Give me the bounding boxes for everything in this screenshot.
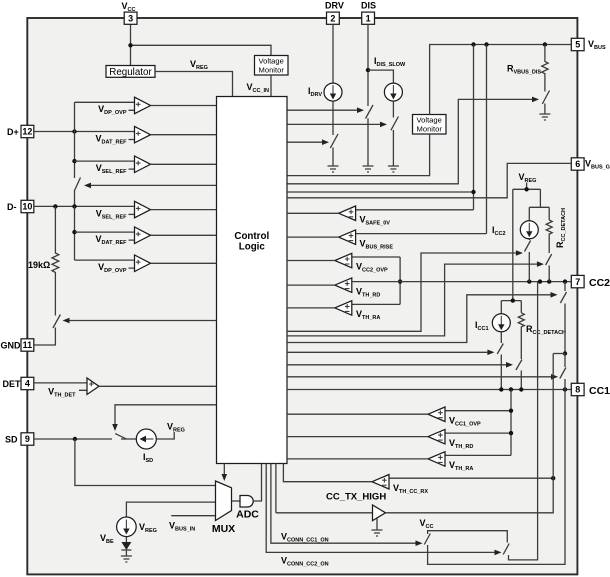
wire control to RCC1 switch — [287, 364, 506, 366]
comparator VBUS_RISE — [287, 230, 487, 245]
ground for IDIS_SLOW — [388, 166, 399, 172]
wire control tap on riser A — [287, 190, 476, 194]
svg-text:D+: D+ — [7, 127, 19, 137]
svg-text:MUX: MUX — [212, 523, 235, 535]
svg-text:Voltage: Voltage — [417, 116, 442, 125]
wire D- net — [34, 204, 134, 208]
switch CC TX to CC1 — [560, 368, 566, 379]
switch VCONN CC2 — [503, 544, 509, 555]
svg-text:ADC: ADC — [236, 509, 259, 521]
svg-text:DRV: DRV — [325, 1, 344, 11]
comparator VDAT_REF (D+) — [129, 126, 217, 142]
switch VCONN CC1 — [424, 534, 430, 545]
comparator VSAFE_0V — [287, 206, 474, 221]
wire VBE branch to MUX input — [126, 502, 215, 517]
svg-text:2: 2 — [330, 13, 335, 23]
comparator VTH_RD (CC1) — [287, 429, 511, 444]
pin 8 (CC1) — [571, 383, 584, 395]
wire control to D+/D- switch — [91, 184, 217, 186]
svg-text:Monitor: Monitor — [259, 65, 285, 74]
comparator VTH_DET — [34, 378, 217, 395]
switch ICC1 connect — [497, 344, 503, 355]
svg-text:1: 1 — [366, 13, 371, 23]
comparator VSEL_REF (D-) — [129, 201, 217, 218]
wire VREG node CC2 — [513, 183, 549, 221]
svg-text:CC_TX_HIGH: CC_TX_HIGH — [326, 491, 386, 502]
svg-text:4: 4 — [25, 379, 30, 389]
wire D- tap column — [72, 206, 76, 260]
switch GND path — [53, 315, 61, 329]
pin 1 (DIS) — [362, 12, 375, 24]
wire VREG riser to CC1 cell — [512, 189, 514, 300]
comparator VTH_CC_RX — [283, 464, 555, 490]
wire CC2 comparator tap column — [398, 257, 402, 304]
pin 5 (VBUS) — [571, 38, 584, 50]
control logic block — [217, 97, 288, 464]
regulator U-REG — [106, 66, 155, 78]
pin 9 (SD) — [21, 433, 34, 445]
svg-text:6: 6 — [575, 159, 580, 169]
wire CC1 cell top bar — [501, 298, 521, 313]
comparator VCC2_OVP — [287, 253, 400, 267]
ground for DIS switch — [363, 166, 374, 172]
wire CC1 comparator tap column — [509, 390, 513, 456]
wire VCONN_CC2_ON control — [266, 464, 494, 553]
comparator VCC1_OVP — [287, 407, 511, 422]
wire IDRV to switch and ground — [332, 101, 334, 166]
wire ICC2 to switch to CC2 — [528, 239, 530, 282]
wire CC1 net to pin 8 — [287, 387, 571, 391]
svg-text:3: 3 — [128, 13, 133, 23]
pin 2 (DRV) — [327, 12, 340, 24]
wire VCC bar for VCONN switches — [428, 531, 508, 543]
wire VCC_IN from VM1 to control logic — [270, 75, 272, 97]
wire 19k to GND switch — [34, 276, 56, 345]
wire DIS to IDIS_SLOW branch — [368, 70, 393, 83]
svg-text:CC1: CC1 — [589, 385, 610, 397]
wire ADC output to control logic — [253, 464, 261, 502]
wire RCC_DETACH CC2 to switch to CC2 — [548, 236, 550, 282]
svg-text:DET: DET — [3, 379, 22, 389]
svg-text:DIS: DIS — [361, 1, 376, 11]
svg-text:Monitor: Monitor — [417, 124, 443, 133]
wire control to VBUS discharge switch — [287, 99, 532, 183]
wire VM2 output to control logic — [287, 134, 430, 176]
svg-text:Logic: Logic — [239, 242, 266, 253]
svg-text:CC2: CC2 — [589, 277, 610, 289]
wire VCC net from pin 3 to regulator and voltage monitor — [128, 24, 271, 65]
svg-text:SD: SD — [5, 435, 18, 445]
pin 7 (CC2) — [571, 275, 584, 287]
wire control to TX-CC1 switch — [287, 376, 551, 378]
switch DIS discharge — [366, 105, 374, 119]
resistor RVBUS_DIS — [542, 45, 548, 77]
resistor 19k on D- — [52, 206, 59, 276]
buffer CC TX driver — [276, 464, 386, 531]
wire RVBUS_DIS to switch — [544, 76, 546, 114]
ground for VBE — [121, 556, 132, 562]
wire SD to MUX input — [75, 439, 216, 486]
pin 12 (D+) — [21, 125, 34, 137]
wire VBUS sense riser A — [473, 45, 475, 210]
svg-text:12: 12 — [22, 127, 32, 137]
wire control to GND switch — [70, 320, 217, 322]
current source ICC2 — [520, 221, 538, 239]
switch IDIS_SLOW enable — [391, 117, 399, 131]
wire DRV pin to current source IDRV — [332, 24, 334, 83]
svg-text:19kΩ: 19kΩ — [28, 260, 50, 270]
comparator VDP_OVP (D-) — [75, 255, 217, 272]
svg-text:10: 10 — [22, 202, 32, 212]
wire control to DIS switch — [287, 109, 357, 111]
node CC TX join — [553, 351, 567, 355]
svg-text:11: 11 — [23, 340, 33, 350]
comparator VDP_OVP (D+) — [75, 97, 217, 114]
switch ISD enable — [115, 434, 126, 439]
wire control to IDIS_SLOW switch — [287, 123, 380, 125]
ground for IDRV — [328, 166, 339, 172]
wire control to IDRV switch — [287, 141, 322, 143]
wire control to TX-CC2 switch — [287, 295, 551, 343]
voltage monitor U-VM1 — [255, 56, 289, 76]
current source ISD — [121, 429, 174, 449]
svg-text:5: 5 — [575, 40, 580, 50]
wire VBUS sense riser B — [486, 45, 488, 234]
wire control to ICC1 switch — [287, 351, 487, 353]
wire control to pin 6 — [287, 163, 571, 197]
current source IDIS_SLOW — [384, 83, 402, 101]
wire CC TX mux chain upper — [564, 282, 566, 354]
svg-text:Control: Control — [234, 231, 269, 242]
svg-text:Regulator: Regulator — [109, 67, 152, 78]
wire CC TX output riser — [386, 354, 554, 513]
switch VBUS discharge — [542, 91, 549, 105]
comparator VDAT_REF (D-) — [75, 227, 217, 244]
wire control to MUX select — [223, 464, 225, 475]
pin 10 (D-) — [21, 200, 34, 212]
current source ICC1 — [492, 314, 510, 332]
switch IDRV enable — [330, 134, 338, 148]
wire VREG from regulator to control logic — [155, 72, 233, 97]
wire D+ tap column — [72, 102, 76, 206]
wire VCONN_CC1_ON control — [271, 464, 416, 544]
comparator VTH_RA (CC2) — [287, 301, 400, 316]
wire VCONN CC1 switch to CC1 riser — [428, 390, 565, 565]
svg-text:GND: GND — [1, 341, 22, 351]
svg-text:8: 8 — [575, 385, 580, 395]
current source VBE bias — [117, 517, 137, 537]
wire VBUS rail to pin 5 — [430, 42, 572, 114]
switch RCC_DETACH CC2 connect — [546, 254, 552, 265]
pin 11 (GND) — [21, 339, 34, 351]
switch CC TX to CC2 — [560, 292, 566, 303]
switch ICC2 connect — [525, 241, 531, 252]
comparator VSEL_REF (D+) — [75, 156, 217, 173]
ground for VBUS discharge — [539, 114, 550, 120]
wire IDIS_SLOW to switch and ground — [392, 101, 394, 166]
resistor RCC_DETACH (CC1) — [518, 313, 524, 329]
diode VBE junction — [121, 537, 131, 556]
voltage monitor U-VM2 — [413, 115, 447, 135]
adc ADC — [232, 496, 260, 521]
wire RCC_DETACH CC1 to switch to CC1 — [520, 329, 522, 390]
svg-text:D-: D- — [7, 202, 17, 212]
wire DIS pin down to switch and ground — [366, 24, 370, 166]
switch RCC_DETACH CC1 connect — [516, 360, 522, 371]
wire CC2 net to pin 7 — [352, 279, 572, 283]
wire CC TX mux chain lower — [564, 354, 566, 390]
wire control to ICC2 switch — [287, 253, 516, 331]
current source IDRV — [324, 83, 342, 101]
pin 6 (VBUS_G) — [571, 158, 584, 170]
wire SD net — [34, 437, 112, 441]
switch D+/D- — [75, 178, 81, 191]
wire control to ISD switch — [115, 405, 217, 424]
wire VBUS_IN to MUX input — [171, 515, 215, 517]
comparator VTH_RA (CC1) — [287, 452, 511, 467]
pin 4 (DET) — [21, 377, 34, 389]
comparator VTH_RD (CC2) — [287, 278, 352, 293]
pin 3 (VCC) — [124, 12, 137, 24]
mux MUX — [212, 481, 235, 535]
wire VCONN CC2 switch to CC2 riser — [509, 282, 538, 560]
wire D+ net — [34, 129, 134, 133]
ground for CC TX driver — [372, 530, 383, 536]
wire control to RCC2 switch — [287, 264, 537, 336]
resistor RCC_DETACH (CC2) — [546, 220, 552, 236]
svg-text:9: 9 — [25, 434, 30, 444]
svg-text:7: 7 — [575, 277, 580, 287]
svg-text:Voltage: Voltage — [259, 57, 284, 66]
wire ICC1 to switch to CC1 — [500, 332, 502, 390]
